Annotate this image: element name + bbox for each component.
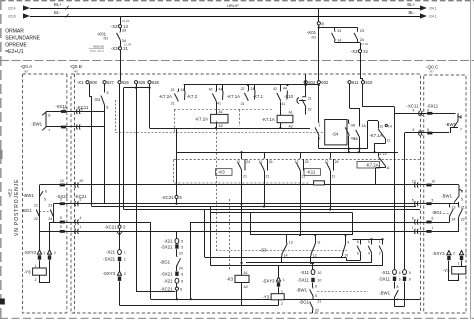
svg-text:22: 22 [34, 217, 38, 221]
terminal SXY3:2 mid [117, 271, 121, 275]
wire 610 down [362, 84, 364, 107]
svg-text:608: 608 [90, 80, 98, 85]
svg-text:1: 1 [465, 252, 467, 256]
junction coil rail 1 [215, 127, 217, 129]
terminal X3:21 [118, 47, 121, 50]
sensor SX21 5 [175, 244, 178, 248]
terminal X21:6 [175, 278, 179, 283]
svg-text:/67: /67 [430, 70, 435, 74]
svg-text:14: 14 [284, 254, 288, 258]
svg-text:-BG1: -BG1 [160, 260, 171, 265]
svg-text:6: 6 [412, 217, 414, 221]
svg-text:10: 10 [60, 179, 64, 183]
terminal X2:13 [118, 25, 121, 28]
svg-text:-XC21: -XC21 [160, 287, 173, 292]
svg-text:21: 21 [123, 46, 128, 51]
terminal X1:608 [86, 81, 89, 84]
limit switch BW1 upper [42, 112, 46, 131]
wire X21:6 to XC21:6 [176, 283, 178, 287]
coil Y3 mid [271, 294, 284, 300]
row 4 long wire [40, 231, 460, 233]
wire X3:21 down to X1:626 [120, 50, 122, 81]
wire SX21 to BG1 [176, 249, 178, 256]
bottom rail 2 [120, 305, 279, 307]
relay contact at 241.5 [238, 158, 245, 171]
wire 608 down [89, 84, 91, 97]
svg-text:10: 10 [317, 279, 321, 283]
svg-text:3A: 3A [351, 124, 356, 128]
svg-text:-BW1: -BW1 [441, 194, 452, 199]
junction K3 on rail A [240, 203, 242, 205]
wire K7.2A to row1 [375, 168, 377, 185]
svg-text:8: 8 [413, 128, 415, 132]
svg-text:-K7.2A: -K7.2A [365, 163, 378, 168]
svg-text:8: 8 [460, 115, 462, 119]
svg-text:22: 22 [363, 49, 368, 54]
connector XC11 row2 [419, 130, 423, 135]
pin circle 14 [385, 124, 387, 126]
svg-text:11: 11 [387, 139, 391, 143]
sensor bar SXY3 mid [118, 277, 121, 281]
wire row3 down left [150, 222, 152, 299]
svg-text:-SX11: -SX11 [55, 104, 67, 109]
svg-text:=E2: =E2 [8, 188, 14, 197]
wire S4 4A down [348, 136, 350, 149]
wire contacts bottom join [335, 42, 360, 44]
wire coil K7.2A to rail [216, 123, 218, 128]
rail B [92, 206, 416, 208]
junction 625 [135, 87, 137, 89]
svg-text:-X3: -X3 [351, 49, 358, 54]
terminal X11:9 [403, 270, 407, 275]
svg-text:/83: /83 [103, 37, 108, 41]
junction rail bottom 1 [176, 298, 178, 300]
svg-text:5: 5 [412, 198, 414, 202]
sensor SX11 row b [61, 126, 66, 129]
svg-text:8: 8 [397, 285, 399, 289]
svg-text:1: 1 [412, 226, 414, 230]
stub relay contact 241.5 [241, 152, 243, 158]
svg-text:-K3: -K3 [218, 170, 225, 175]
svg-text:1: 1 [43, 251, 45, 255]
junction S3 c [344, 234, 346, 236]
wire right 24 to row3 [449, 217, 451, 222]
sensor bar SXY3 C2 [460, 256, 463, 260]
junction S3 12 [310, 262, 312, 264]
svg-text:6: 6 [461, 190, 463, 194]
contact 23-24 left blade [50, 210, 53, 217]
bottom rail 1 [151, 299, 421, 301]
svg-text:9: 9 [409, 278, 411, 282]
contact right 23-24 [450, 207, 454, 218]
svg-text:44: 44 [283, 87, 287, 91]
terminal X21:1 [118, 250, 122, 255]
svg-text:10: 10 [432, 180, 436, 184]
dashed link to S4 box [116, 132, 325, 134]
svg-text:-SXY3: -SXY3 [432, 251, 445, 256]
row 1 right top [395, 113, 456, 115]
wire to SXY3 mid [278, 266, 280, 277]
svg-text:5: 5 [432, 198, 434, 202]
terminal XC21:5 [175, 195, 178, 198]
wire K3 coil down [241, 283, 243, 306]
limit switch BW1 right top [454, 113, 462, 127]
svg-text:1: 1 [281, 290, 283, 294]
wire BG1 mid2 down [312, 310, 314, 314]
svg-text:6: 6 [357, 252, 359, 256]
arrow BL- left [23, 13, 30, 18]
svg-text:VN POSTROJENJE: VN POSTROJENJE [14, 179, 20, 236]
svg-text:/83: /83 [311, 36, 316, 40]
row 2 right top [405, 132, 450, 134]
sensor SX21 right row 222.0 [426, 221, 431, 224]
wire rail corner up K7.1A [367, 121, 369, 149]
svg-text:-X11: -X11 [381, 270, 390, 275]
sensor SX11 row2 right [427, 132, 432, 135]
terminal X1:627 [103, 81, 106, 84]
contact S10 NC [302, 96, 306, 108]
stub S4 4A to relay rail [348, 149, 350, 153]
arrow BL+ right [420, 5, 427, 10]
junction at node8 wire [318, 26, 320, 28]
sensor bar SXY3 A2 [48, 255, 51, 259]
wire row4 to X21:5 [176, 231, 178, 238]
dashed link S1 [115, 100, 117, 133]
wire BW1 rb down [394, 299, 396, 307]
wire coil K7.1A to rail [280, 123, 282, 128]
separator line under title [0, 60, 474, 62]
svg-text:2: 2 [281, 302, 283, 306]
wire K7.1A 11 link [375, 143, 386, 145]
sensor bar SXY3 A1 [38, 255, 41, 259]
contact K7.1 changeover [277, 91, 288, 102]
junction K3 contact [240, 151, 242, 153]
svg-text:A1: A1 [219, 110, 223, 114]
junction coil rail 2 [279, 127, 281, 129]
contact BW1 right bottom [395, 287, 399, 299]
svg-text:5: 5 [60, 225, 62, 229]
svg-text:21: 21 [308, 97, 312, 101]
svg-text:12: 12 [313, 254, 317, 258]
small contact 6 [357, 244, 360, 254]
contact BG1 mid [177, 256, 181, 267]
svg-text:/67: /67 [24, 69, 29, 73]
wire K7.2 41 to coil [216, 102, 218, 115]
wire rail C down [204, 210, 206, 258]
svg-text:7: 7 [397, 298, 399, 302]
svg-text:1: 1 [432, 226, 434, 230]
sensor SX11:6 [393, 277, 396, 281]
wire row3 drop to SXY3:2 [49, 222, 51, 250]
svg-text:1A: 1A [362, 124, 367, 128]
link line b [346, 260, 360, 262]
svg-text:6: 6 [432, 217, 434, 221]
svg-text:A1: A1 [289, 111, 293, 115]
wire row3 right corner down [190, 222, 192, 299]
svg-text:-S3: -S3 [260, 248, 267, 253]
contact K7.1A changeover [244, 91, 255, 102]
wire contact4 down [330, 171, 332, 210]
wire contact4 down [371, 254, 373, 263]
svg-text:1: 1 [283, 278, 285, 282]
junction 628 [148, 87, 150, 89]
svg-text:22: 22 [241, 87, 245, 91]
svg-text:-K7.1A: -K7.1A [369, 133, 382, 138]
stub contact 13 [334, 28, 336, 31]
wire SX11:6 down [394, 282, 396, 288]
sensor bar SXY3 mid2 [277, 282, 280, 286]
svg-text:A1: A1 [244, 271, 248, 275]
svg-text:-X21: -X21 [106, 250, 116, 255]
terminal XC21:6 [175, 287, 178, 290]
wire SXY3:2 A down [49, 260, 51, 283]
svg-text:21.02: 21.02 [122, 19, 130, 23]
wire BG1 to SX21:6 [176, 266, 178, 272]
dashed mech link S3 [216, 250, 347, 252]
wire row2 to BW1 [450, 127, 458, 129]
wire Y3 mid down [278, 300, 280, 306]
coil return rail [150, 128, 311, 130]
stub 14 down [334, 41, 336, 43]
svg-text:626: 626 [122, 80, 130, 85]
stub K7.2A r [378, 152, 380, 156]
connector KC21 row y=203.7 [75, 201, 79, 206]
stub relay contact 300 [300, 152, 302, 158]
svg-text:9: 9 [81, 107, 83, 111]
sensor SX11 row1 right [427, 112, 432, 115]
wire 627 to S1 pin5 [104, 84, 106, 93]
terminal SXY3:1 C [459, 251, 463, 255]
wire SX21:1 down [119, 262, 121, 271]
svg-text:21: 21 [243, 175, 247, 179]
svg-text:42: 42 [209, 88, 213, 92]
connector KC21 row y=222.0 [75, 219, 79, 224]
rail D corner down [352, 213, 354, 236]
svg-text:9: 9 [347, 241, 349, 245]
arrow BL+ left [23, 5, 30, 10]
sensor SX21 1 [118, 257, 121, 261]
wire Y3 A down [39, 275, 41, 283]
stub relay contact 330 [330, 152, 332, 158]
wire to X11 mid [312, 263, 314, 269]
relay contact at 300 [296, 158, 303, 171]
link line d [211, 265, 383, 267]
connector KC21 right row 185.0 [415, 182, 419, 187]
svg-text:-X11: -X11 [300, 270, 309, 275]
svg-text:10: 10 [412, 180, 416, 184]
small contact 2 [379, 244, 382, 254]
svg-text:-XC21: -XC21 [104, 225, 117, 230]
row 2 long wire / rail A [54, 203, 460, 205]
svg-text:2: 2 [35, 278, 37, 282]
svg-text:10: 10 [317, 271, 321, 275]
svg-text:-Y3: -Y3 [443, 268, 450, 273]
terminal X1:625 [134, 81, 137, 84]
contact S4 1A-2A [356, 126, 360, 139]
dashed group link S3 left [229, 199, 231, 270]
wire K7.2A 11 down [385, 166, 387, 168]
svg-text:7: 7 [48, 129, 50, 133]
svg-text:4: 4 [80, 216, 82, 220]
wire K7.1 41 to coil [280, 102, 282, 116]
wire 628 down to coil rail [149, 84, 151, 128]
dashed group line coils [174, 109, 272, 111]
row 3 left segment [50, 222, 151, 224]
junction 604 rail [305, 84, 307, 86]
wire row2 up [450, 128, 452, 134]
wire S1 down to rail A [104, 105, 106, 204]
svg-text:5: 5 [315, 294, 317, 298]
wire rail drop from coil rail [176, 128, 178, 152]
svg-text:-SXY3: -SXY3 [262, 279, 275, 284]
svg-text:6: 6 [48, 114, 50, 118]
svg-text:2: 2 [379, 252, 381, 256]
wire BL+ bus [30, 8, 420, 10]
svg-text:A2: A2 [244, 285, 248, 289]
terminal X1:626 [118, 81, 121, 84]
svg-text:44: 44 [219, 88, 223, 92]
stub contact 2 top [382, 239, 384, 243]
reference box -K11 [304, 169, 321, 176]
cable marker on 626 chain [117, 231, 123, 235]
wire down to rail C [123, 88, 125, 210]
svg-text:2: 2 [54, 251, 56, 255]
svg-text:-SXY3: -SXY3 [103, 271, 116, 276]
contact right 21-22 [459, 207, 463, 218]
frame right gray line [470, 0, 472, 319]
svg-text:-XC21: -XC21 [161, 195, 174, 200]
svg-text:-KC21: -KC21 [75, 194, 88, 199]
frame top gray dashed [0, 0, 474, 2]
svg-text:20: 20 [80, 179, 84, 183]
svg-text:21: 21 [171, 102, 175, 106]
svg-text:=E2+U1: =E2+U1 [5, 49, 24, 55]
svg-text:/22.4: /22.4 [8, 7, 16, 11]
svg-text:-BW1: -BW1 [23, 193, 34, 198]
wire Y3 C bottom [458, 274, 460, 281]
stub S4 1A from 611 jog [359, 108, 361, 126]
rail feeding K7 contacts [184, 84, 319, 86]
link line c [246, 262, 372, 264]
wire SXY3 to Y3 coil [39, 260, 41, 268]
wire 608 jog [89, 96, 92, 98]
frame bottom gray dashed [0, 318, 474, 320]
junction contact 2 [381, 238, 383, 240]
connector KC21 row y=185.0 [75, 182, 79, 187]
svg-text:2A: 2A [354, 137, 359, 141]
sensor SX21 right row 203.7 [426, 202, 431, 205]
wire 608 down to rail B [91, 97, 93, 207]
svg-text:-K3: -K3 [226, 277, 233, 282]
svg-text:/24.1: /24.1 [429, 15, 437, 19]
dashed group left edge [174, 110, 176, 133]
svg-text:33: 33 [122, 29, 126, 33]
svg-text:-BW1: -BW1 [31, 121, 42, 126]
column contact 23-24 left [53, 204, 55, 222]
svg-text:611: 611 [352, 80, 359, 85]
column BW1 BG1 left [39, 185, 41, 231]
svg-text:24: 24 [251, 87, 255, 91]
svg-text:-Q0.C: -Q0.C [426, 64, 439, 69]
junction XC21:5 [175, 203, 177, 205]
svg-text:1: 1 [458, 262, 460, 266]
svg-text:/40: /40 [74, 69, 79, 73]
svg-text:-Q0.A: -Q0.A [20, 64, 33, 69]
terminal X1:604 [304, 81, 307, 84]
svg-text:-X3: -X3 [111, 46, 118, 51]
svg-text:/24.1: /24.1 [429, 7, 437, 11]
svg-text:11: 11 [332, 175, 336, 179]
svg-text:1: 1 [124, 251, 126, 255]
svg-text:-K7.2: -K7.2 [187, 94, 198, 99]
svg-text:-K7.2A: -K7.2A [159, 94, 172, 99]
sensor SX21 right row 231.4 [426, 230, 431, 233]
sensor SX21 row y=185.0 [60, 184, 65, 187]
wire node8 down to X1:602 [318, 25, 320, 81]
svg-text:-SXY3: -SXY3 [24, 250, 37, 255]
contact K01 23-24 [354, 31, 357, 41]
connector KC11 row a [77, 109, 81, 114]
contact S3 11-12 [311, 243, 315, 256]
reference box -K7.2A right [357, 161, 380, 168]
svg-text:6: 6 [45, 189, 47, 193]
stub K7.2 pin44 [222, 85, 224, 91]
svg-text:625: 625 [139, 80, 147, 85]
svg-text:-BG1: -BG1 [299, 300, 310, 305]
svg-text:24: 24 [269, 160, 273, 164]
svg-text:41: 41 [281, 102, 285, 106]
stub BW1 rm to row2 [458, 202, 460, 204]
switch box S4 [325, 120, 347, 145]
wire join right chains [395, 306, 405, 308]
inline box on row1 [314, 181, 325, 185]
wire S3 14 down [281, 256, 283, 263]
tick on BL- [66, 14, 69, 18]
small contact 4 [368, 244, 371, 254]
svg-text:5: 5 [107, 91, 109, 95]
svg-text:5: 5 [44, 197, 46, 201]
junction S3 a [299, 234, 301, 236]
svg-text:6: 6 [181, 273, 183, 277]
sensor bar SXY3 C1 [447, 256, 450, 260]
junction X11 chain top [312, 262, 314, 264]
svg-text:2: 2 [124, 272, 126, 276]
wire SX11:9 down [404, 282, 406, 307]
svg-text:42: 42 [273, 87, 277, 91]
wire K7.1A to relay rail [374, 143, 376, 152]
sensor SX11:9 [403, 277, 406, 281]
dashed group box K3 row [174, 160, 420, 183]
wire SXY3:2 C down [448, 261, 450, 281]
coil Y3 C [452, 267, 466, 275]
junction K3 coil wire [240, 262, 242, 264]
contact S3 13-14 [282, 243, 287, 256]
stub contact 4 top [371, 239, 373, 243]
svg-text:-X1: -X1 [77, 80, 84, 85]
rail D [211, 212, 352, 214]
wire into X1:610 [362, 78, 364, 81]
svg-text:14: 14 [388, 124, 392, 128]
svg-text:610: 610 [366, 80, 374, 85]
rail under S4 [319, 148, 368, 150]
svg-text:22: 22 [171, 88, 175, 92]
stub right 23 [449, 204, 451, 207]
junction S4 wire a [348, 151, 350, 153]
svg-text:1: 1 [80, 225, 82, 229]
wire contact2 down [264, 171, 266, 207]
wire rail D to S3 line [250, 213, 252, 236]
svg-text:-SX11: -SX11 [297, 278, 309, 283]
